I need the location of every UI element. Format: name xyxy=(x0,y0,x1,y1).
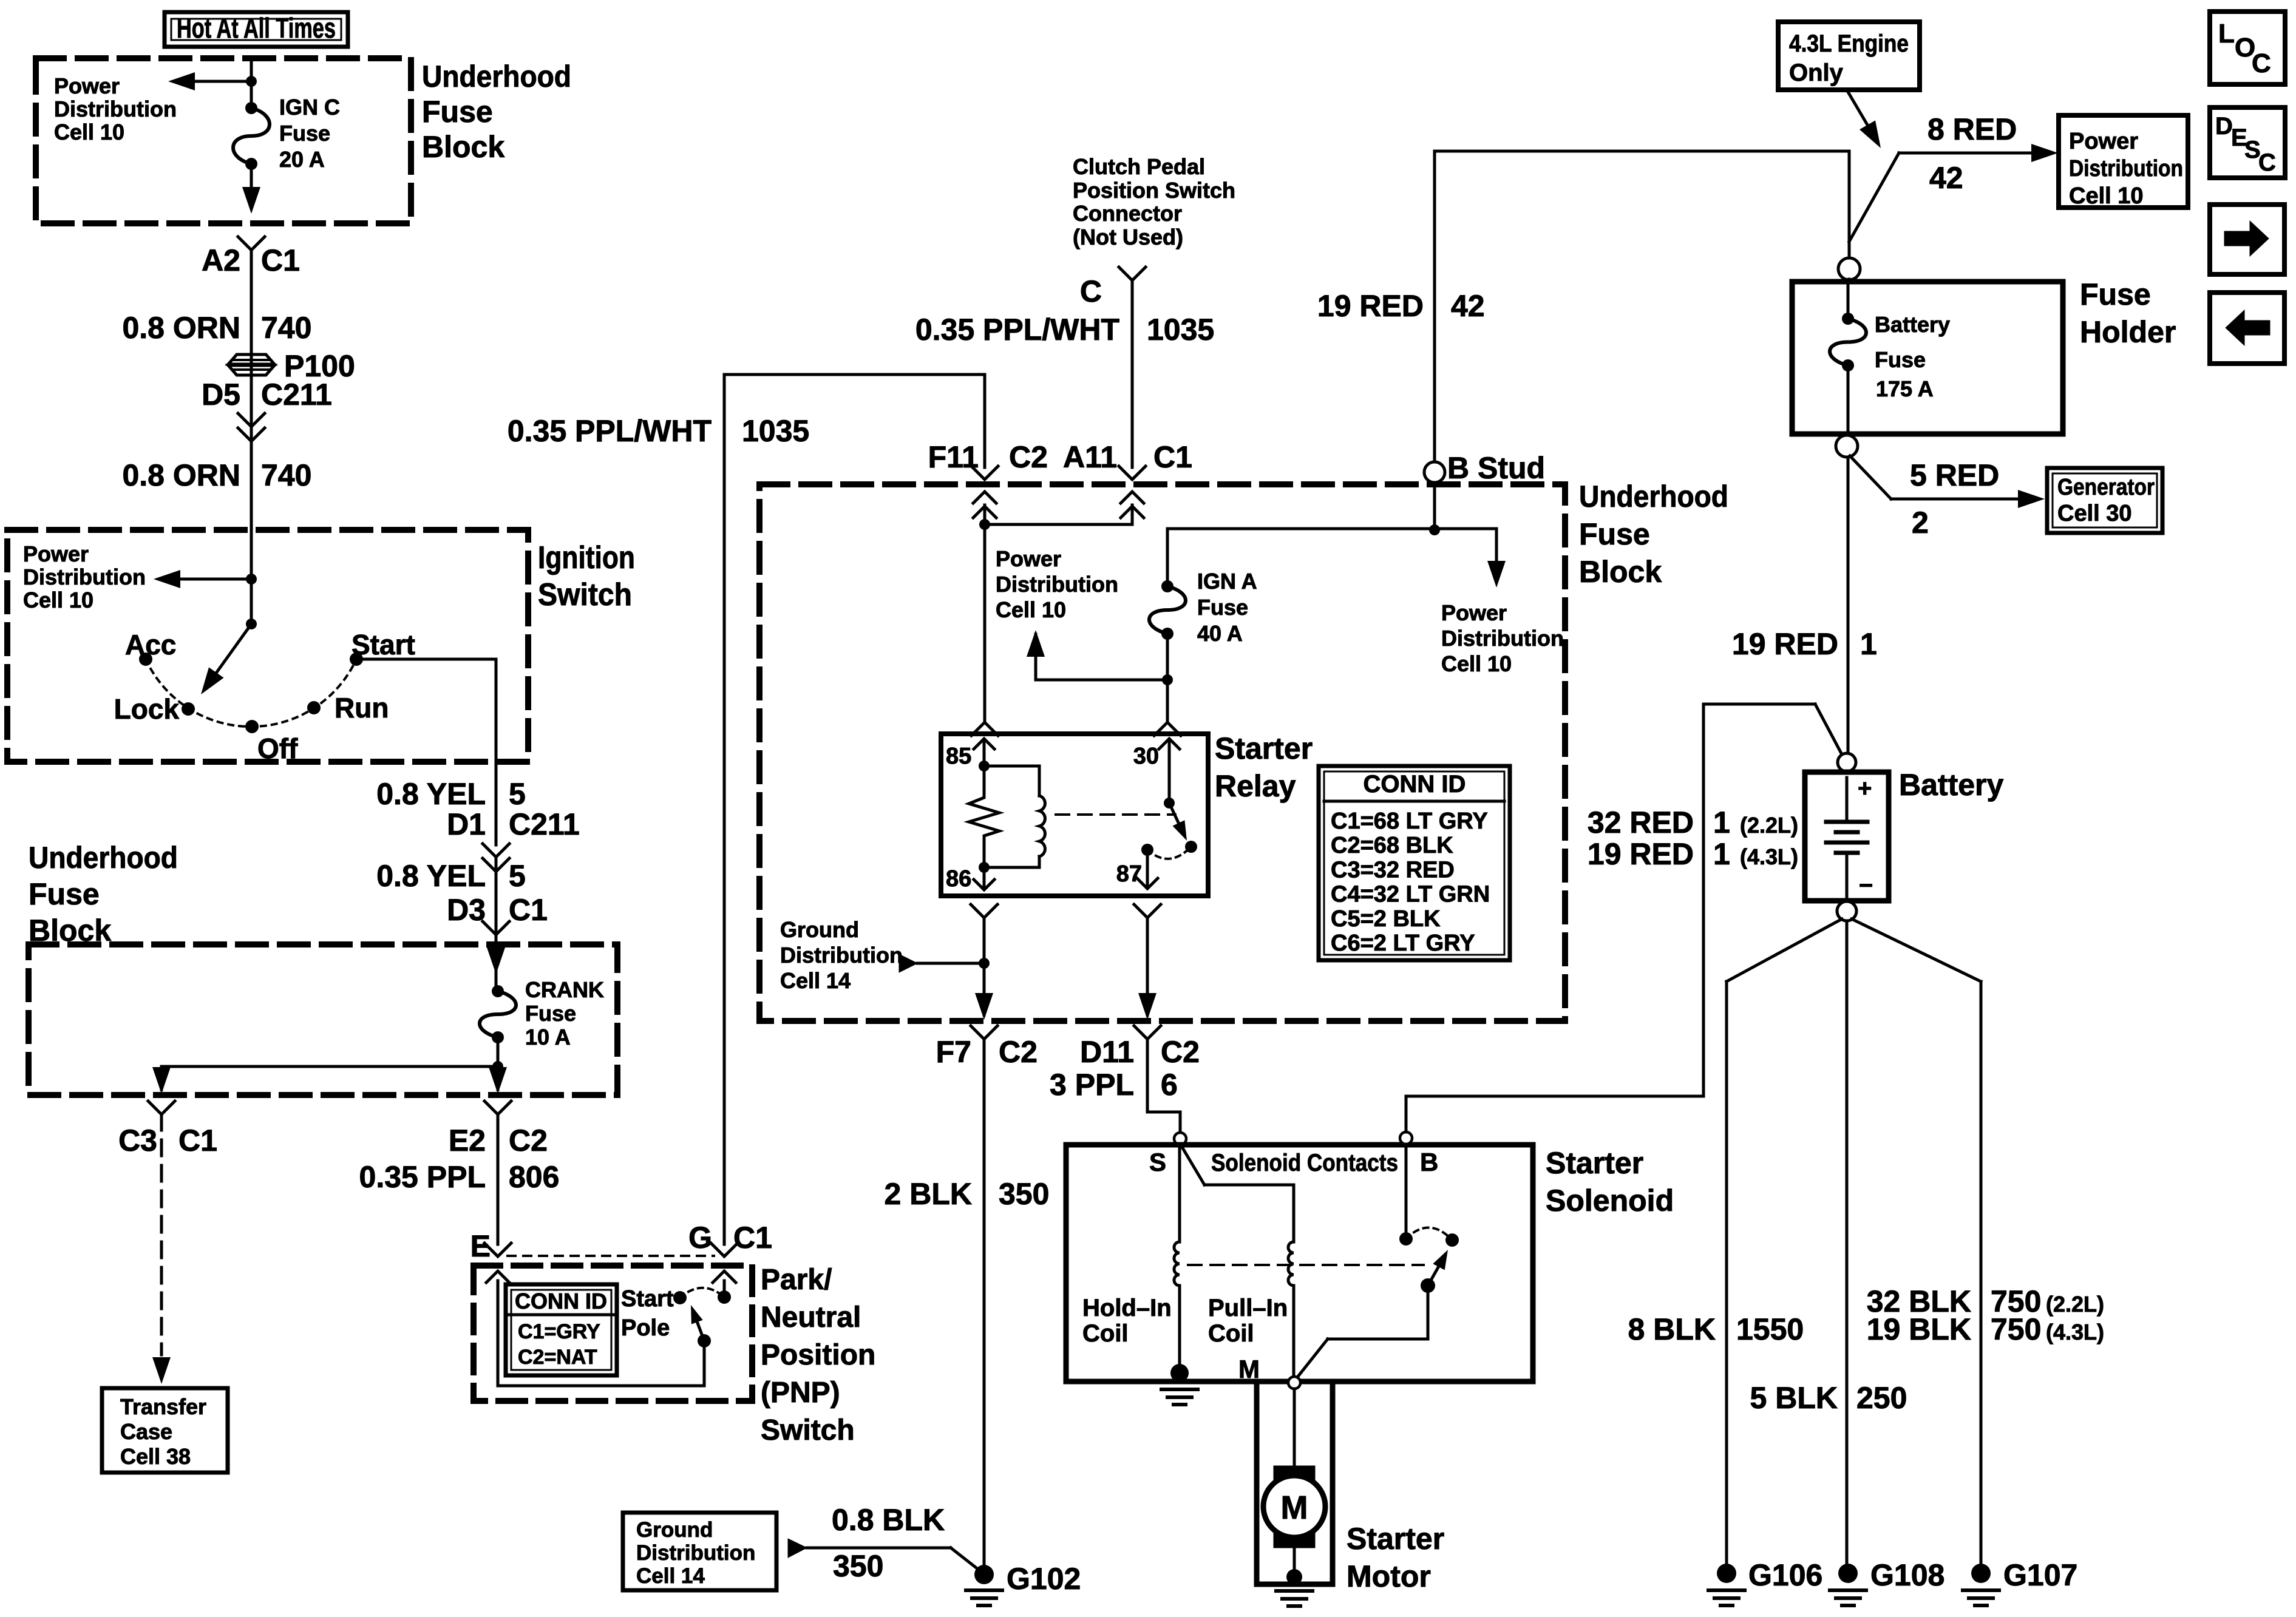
svg-text:806: 806 xyxy=(509,1160,559,1194)
svg-text:Cell 10: Cell 10 xyxy=(2069,183,2144,209)
svg-text:Holder: Holder xyxy=(2080,315,2176,349)
svg-text:Starter: Starter xyxy=(1347,1522,1444,1556)
svg-text:C2: C2 xyxy=(1009,440,1048,474)
svg-text:740: 740 xyxy=(261,458,311,492)
svg-text:42: 42 xyxy=(1451,289,1485,323)
svg-text:Cell 10: Cell 10 xyxy=(996,597,1066,622)
svg-text:Ground: Ground xyxy=(636,1518,713,1542)
svg-text:1: 1 xyxy=(1713,837,1730,871)
svg-text:Position: Position xyxy=(761,1339,875,1371)
svg-text:Switch: Switch xyxy=(761,1414,855,1446)
svg-text:(4.3L): (4.3L) xyxy=(1740,844,1798,869)
svg-text:C5=2 BLK: C5=2 BLK xyxy=(1331,906,1441,932)
svg-text:8 RED: 8 RED xyxy=(1927,112,2017,146)
svg-text:Pole: Pole xyxy=(621,1315,670,1341)
svg-text:(PNP): (PNP) xyxy=(761,1377,840,1409)
svg-text:Hot At All Times: Hot At All Times xyxy=(177,12,336,44)
svg-text:C2: C2 xyxy=(1161,1035,1200,1069)
svg-text:Underhood: Underhood xyxy=(422,59,571,93)
svg-text:A2: A2 xyxy=(202,243,240,277)
svg-text:Distribution: Distribution xyxy=(636,1541,755,1565)
svg-text:Connector: Connector xyxy=(1073,201,1182,226)
svg-text:C1: C1 xyxy=(733,1221,772,1255)
svg-text:Block: Block xyxy=(422,130,504,164)
svg-text:Start: Start xyxy=(621,1286,674,1312)
svg-text:Fuse: Fuse xyxy=(525,1001,576,1026)
svg-text:Power: Power xyxy=(996,546,1061,571)
svg-text:Only: Only xyxy=(1789,59,1844,86)
svg-text:G108: G108 xyxy=(1870,1558,1944,1592)
svg-text:CONN ID: CONN ID xyxy=(515,1289,607,1314)
svg-text:6: 6 xyxy=(1161,1068,1178,1102)
svg-text:D5: D5 xyxy=(202,378,240,412)
svg-text:E2: E2 xyxy=(449,1124,486,1158)
svg-text:Off: Off xyxy=(257,733,298,764)
svg-text:0.8 ORN: 0.8 ORN xyxy=(122,311,240,345)
svg-text:G107: G107 xyxy=(2003,1558,2077,1592)
svg-text:Cell 14: Cell 14 xyxy=(636,1564,705,1588)
svg-text:Solenoid Contacts: Solenoid Contacts xyxy=(1211,1150,1398,1176)
svg-text:1035: 1035 xyxy=(742,414,809,448)
svg-text:Underhood: Underhood xyxy=(29,841,178,875)
svg-text:+: + xyxy=(1858,775,1872,802)
svg-text:0.8 BLK: 0.8 BLK xyxy=(832,1503,945,1537)
svg-text:Distribution: Distribution xyxy=(996,572,1118,597)
svg-text:Run: Run xyxy=(335,692,389,724)
svg-text:C4=32 LT GRN: C4=32 LT GRN xyxy=(1331,882,1490,907)
svg-text:Battery: Battery xyxy=(1899,768,2003,802)
svg-text:C: C xyxy=(2252,49,2271,78)
svg-text:S: S xyxy=(1149,1148,1166,1176)
svg-text:B Stud: B Stud xyxy=(1447,451,1545,485)
svg-text:Cell 10: Cell 10 xyxy=(54,120,124,144)
svg-text:C2: C2 xyxy=(999,1035,1038,1069)
svg-text:5 RED: 5 RED xyxy=(1910,458,1999,492)
svg-text:5 BLK: 5 BLK xyxy=(1750,1381,1838,1415)
svg-text:30: 30 xyxy=(1133,744,1159,769)
svg-text:Underhood: Underhood xyxy=(1579,480,1728,514)
svg-text:Generator: Generator xyxy=(2057,475,2155,500)
svg-text:Ignition: Ignition xyxy=(538,540,635,575)
svg-text:Fuse: Fuse xyxy=(1197,595,1248,620)
svg-text:1035: 1035 xyxy=(1147,313,1214,347)
svg-text:85: 85 xyxy=(946,744,971,769)
svg-text:C: C xyxy=(1080,274,1102,308)
svg-text:Transfer: Transfer xyxy=(120,1394,206,1419)
svg-text:Power: Power xyxy=(2069,129,2138,154)
svg-text:C211: C211 xyxy=(509,807,580,841)
svg-text:C1: C1 xyxy=(1153,440,1192,474)
svg-text:C6=2 LT GRY: C6=2 LT GRY xyxy=(1331,931,1475,956)
svg-text:Cell 30: Cell 30 xyxy=(2057,501,2132,526)
svg-text:Acc: Acc xyxy=(125,629,176,660)
svg-text:40 A: 40 A xyxy=(1197,621,1243,646)
svg-text:1: 1 xyxy=(1860,627,1877,661)
svg-text:750: 750 xyxy=(1991,1312,2041,1346)
svg-text:Relay: Relay xyxy=(1215,769,1296,803)
svg-text:G: G xyxy=(688,1221,712,1255)
svg-text:Starter: Starter xyxy=(1546,1146,1643,1180)
svg-text:Case: Case xyxy=(120,1419,172,1444)
svg-text:1: 1 xyxy=(1713,805,1730,839)
svg-text:8 BLK: 8 BLK xyxy=(1628,1312,1716,1346)
svg-text:CRANK: CRANK xyxy=(525,977,604,1002)
svg-text:175 A: 175 A xyxy=(1876,376,1934,401)
svg-text:Cell 10: Cell 10 xyxy=(1441,651,1512,676)
svg-text:C1=GRY: C1=GRY xyxy=(518,1320,600,1343)
svg-text:0.35 PPL/WHT: 0.35 PPL/WHT xyxy=(915,313,1119,347)
svg-text:G106: G106 xyxy=(1748,1558,1822,1592)
svg-text:C2: C2 xyxy=(509,1124,548,1158)
svg-text:C: C xyxy=(2258,149,2276,176)
svg-text:19 RED: 19 RED xyxy=(1732,627,1838,661)
svg-text:B: B xyxy=(1420,1148,1438,1176)
svg-text:Cell 10: Cell 10 xyxy=(23,588,93,612)
svg-text:(2.2L): (2.2L) xyxy=(2046,1292,2104,1317)
svg-text:D11: D11 xyxy=(1080,1035,1134,1069)
svg-text:Position Switch: Position Switch xyxy=(1073,178,1235,203)
svg-text:Start: Start xyxy=(352,629,415,660)
svg-text:IGN C: IGN C xyxy=(279,95,340,120)
svg-text:Distribution: Distribution xyxy=(2069,156,2183,181)
svg-text:Starter: Starter xyxy=(1215,731,1313,765)
svg-text:5: 5 xyxy=(509,859,526,893)
svg-text:2: 2 xyxy=(1912,506,1929,540)
svg-text:0.35 PPL: 0.35 PPL xyxy=(359,1160,486,1194)
svg-text:(Not Used): (Not Used) xyxy=(1073,225,1183,249)
svg-text:Fuse: Fuse xyxy=(2080,277,2151,311)
svg-text:Distribution: Distribution xyxy=(1441,626,1564,651)
svg-text:C2=68 BLK: C2=68 BLK xyxy=(1331,833,1453,858)
svg-text:Coil: Coil xyxy=(1082,1320,1129,1347)
svg-text:0.8 YEL: 0.8 YEL xyxy=(376,859,486,893)
svg-text:740: 740 xyxy=(261,311,311,345)
svg-text:Pull–In: Pull–In xyxy=(1208,1295,1288,1321)
svg-text:Distribution: Distribution xyxy=(780,943,903,968)
svg-text:Power: Power xyxy=(23,541,89,566)
svg-text:250: 250 xyxy=(1856,1381,1907,1415)
svg-text:0.35 PPL/WHT: 0.35 PPL/WHT xyxy=(508,414,712,448)
svg-text:1550: 1550 xyxy=(1736,1312,1804,1346)
svg-text:Hold–In: Hold–In xyxy=(1082,1295,1172,1321)
svg-text:Distribution: Distribution xyxy=(23,564,146,589)
svg-text:0.8 ORN: 0.8 ORN xyxy=(122,458,240,492)
svg-text:F11: F11 xyxy=(928,440,979,474)
svg-text:Neutral: Neutral xyxy=(761,1301,861,1334)
svg-text:3 PPL: 3 PPL xyxy=(1050,1068,1134,1102)
svg-text:42: 42 xyxy=(1929,161,1963,195)
svg-text:Solenoid: Solenoid xyxy=(1546,1184,1674,1218)
svg-text:F7: F7 xyxy=(936,1035,971,1069)
svg-text:19 BLK: 19 BLK xyxy=(1867,1312,1971,1346)
svg-text:19 RED: 19 RED xyxy=(1588,837,1694,871)
svg-text:19 RED: 19 RED xyxy=(1317,289,1424,323)
svg-text:CONN ID: CONN ID xyxy=(1364,771,1466,798)
svg-text:C1: C1 xyxy=(509,893,548,927)
svg-text:2 BLK: 2 BLK xyxy=(885,1177,972,1211)
svg-text:32 RED: 32 RED xyxy=(1588,805,1694,839)
svg-text:M: M xyxy=(1281,1490,1308,1526)
svg-text:Fuse: Fuse xyxy=(422,95,493,129)
svg-text:(4.3L): (4.3L) xyxy=(2046,1320,2104,1344)
svg-text:Coil: Coil xyxy=(1208,1320,1254,1347)
svg-text:20 A: 20 A xyxy=(279,147,325,172)
svg-text:C1=68 LT GRY: C1=68 LT GRY xyxy=(1331,808,1488,834)
svg-text:Cell 38: Cell 38 xyxy=(120,1444,191,1469)
svg-text:L: L xyxy=(2218,19,2235,49)
svg-text:Motor: Motor xyxy=(1347,1559,1431,1593)
svg-text:G102: G102 xyxy=(1007,1562,1081,1596)
svg-text:Switch: Switch xyxy=(538,577,632,612)
svg-text:Power: Power xyxy=(54,73,120,98)
svg-text:Fuse: Fuse xyxy=(1579,517,1650,551)
svg-text:Clutch Pedal: Clutch Pedal xyxy=(1073,154,1205,179)
svg-text:IGN A: IGN A xyxy=(1197,569,1257,594)
svg-text:D3: D3 xyxy=(447,893,486,927)
svg-text:10 A: 10 A xyxy=(525,1025,571,1049)
svg-text:5: 5 xyxy=(509,777,526,811)
svg-text:C3=32 RED: C3=32 RED xyxy=(1331,857,1455,883)
svg-text:350: 350 xyxy=(833,1549,883,1583)
svg-text:C2=NAT: C2=NAT xyxy=(518,1346,597,1369)
svg-text:Block: Block xyxy=(1579,555,1662,589)
svg-text:86: 86 xyxy=(946,866,971,892)
svg-text:Ground: Ground xyxy=(780,917,859,942)
svg-text:C1: C1 xyxy=(178,1124,217,1158)
svg-text:−: − xyxy=(1859,872,1873,899)
svg-text:Cell 14: Cell 14 xyxy=(780,968,851,993)
svg-text:C211: C211 xyxy=(261,378,332,412)
svg-text:A11: A11 xyxy=(1063,440,1117,474)
svg-text:Fuse: Fuse xyxy=(1875,347,1926,372)
svg-text:C3: C3 xyxy=(118,1124,157,1158)
svg-text:(2.2L): (2.2L) xyxy=(1740,813,1798,838)
svg-text:4.3L Engine: 4.3L Engine xyxy=(1789,30,1909,57)
svg-text:D: D xyxy=(2215,113,2233,140)
svg-text:Fuse: Fuse xyxy=(279,121,330,146)
svg-text:Battery: Battery xyxy=(1875,312,1950,337)
svg-text:Distribution: Distribution xyxy=(54,97,177,121)
svg-text:Fuse: Fuse xyxy=(29,877,100,911)
svg-text:C1: C1 xyxy=(261,243,300,277)
svg-text:Power: Power xyxy=(1441,600,1507,625)
svg-text:350: 350 xyxy=(999,1177,1049,1211)
svg-text:Park/: Park/ xyxy=(761,1264,832,1296)
svg-text:Lock: Lock xyxy=(114,693,180,725)
svg-text:D1: D1 xyxy=(447,807,486,841)
svg-text:87: 87 xyxy=(1116,861,1142,887)
svg-text:0.8 YEL: 0.8 YEL xyxy=(376,777,486,811)
